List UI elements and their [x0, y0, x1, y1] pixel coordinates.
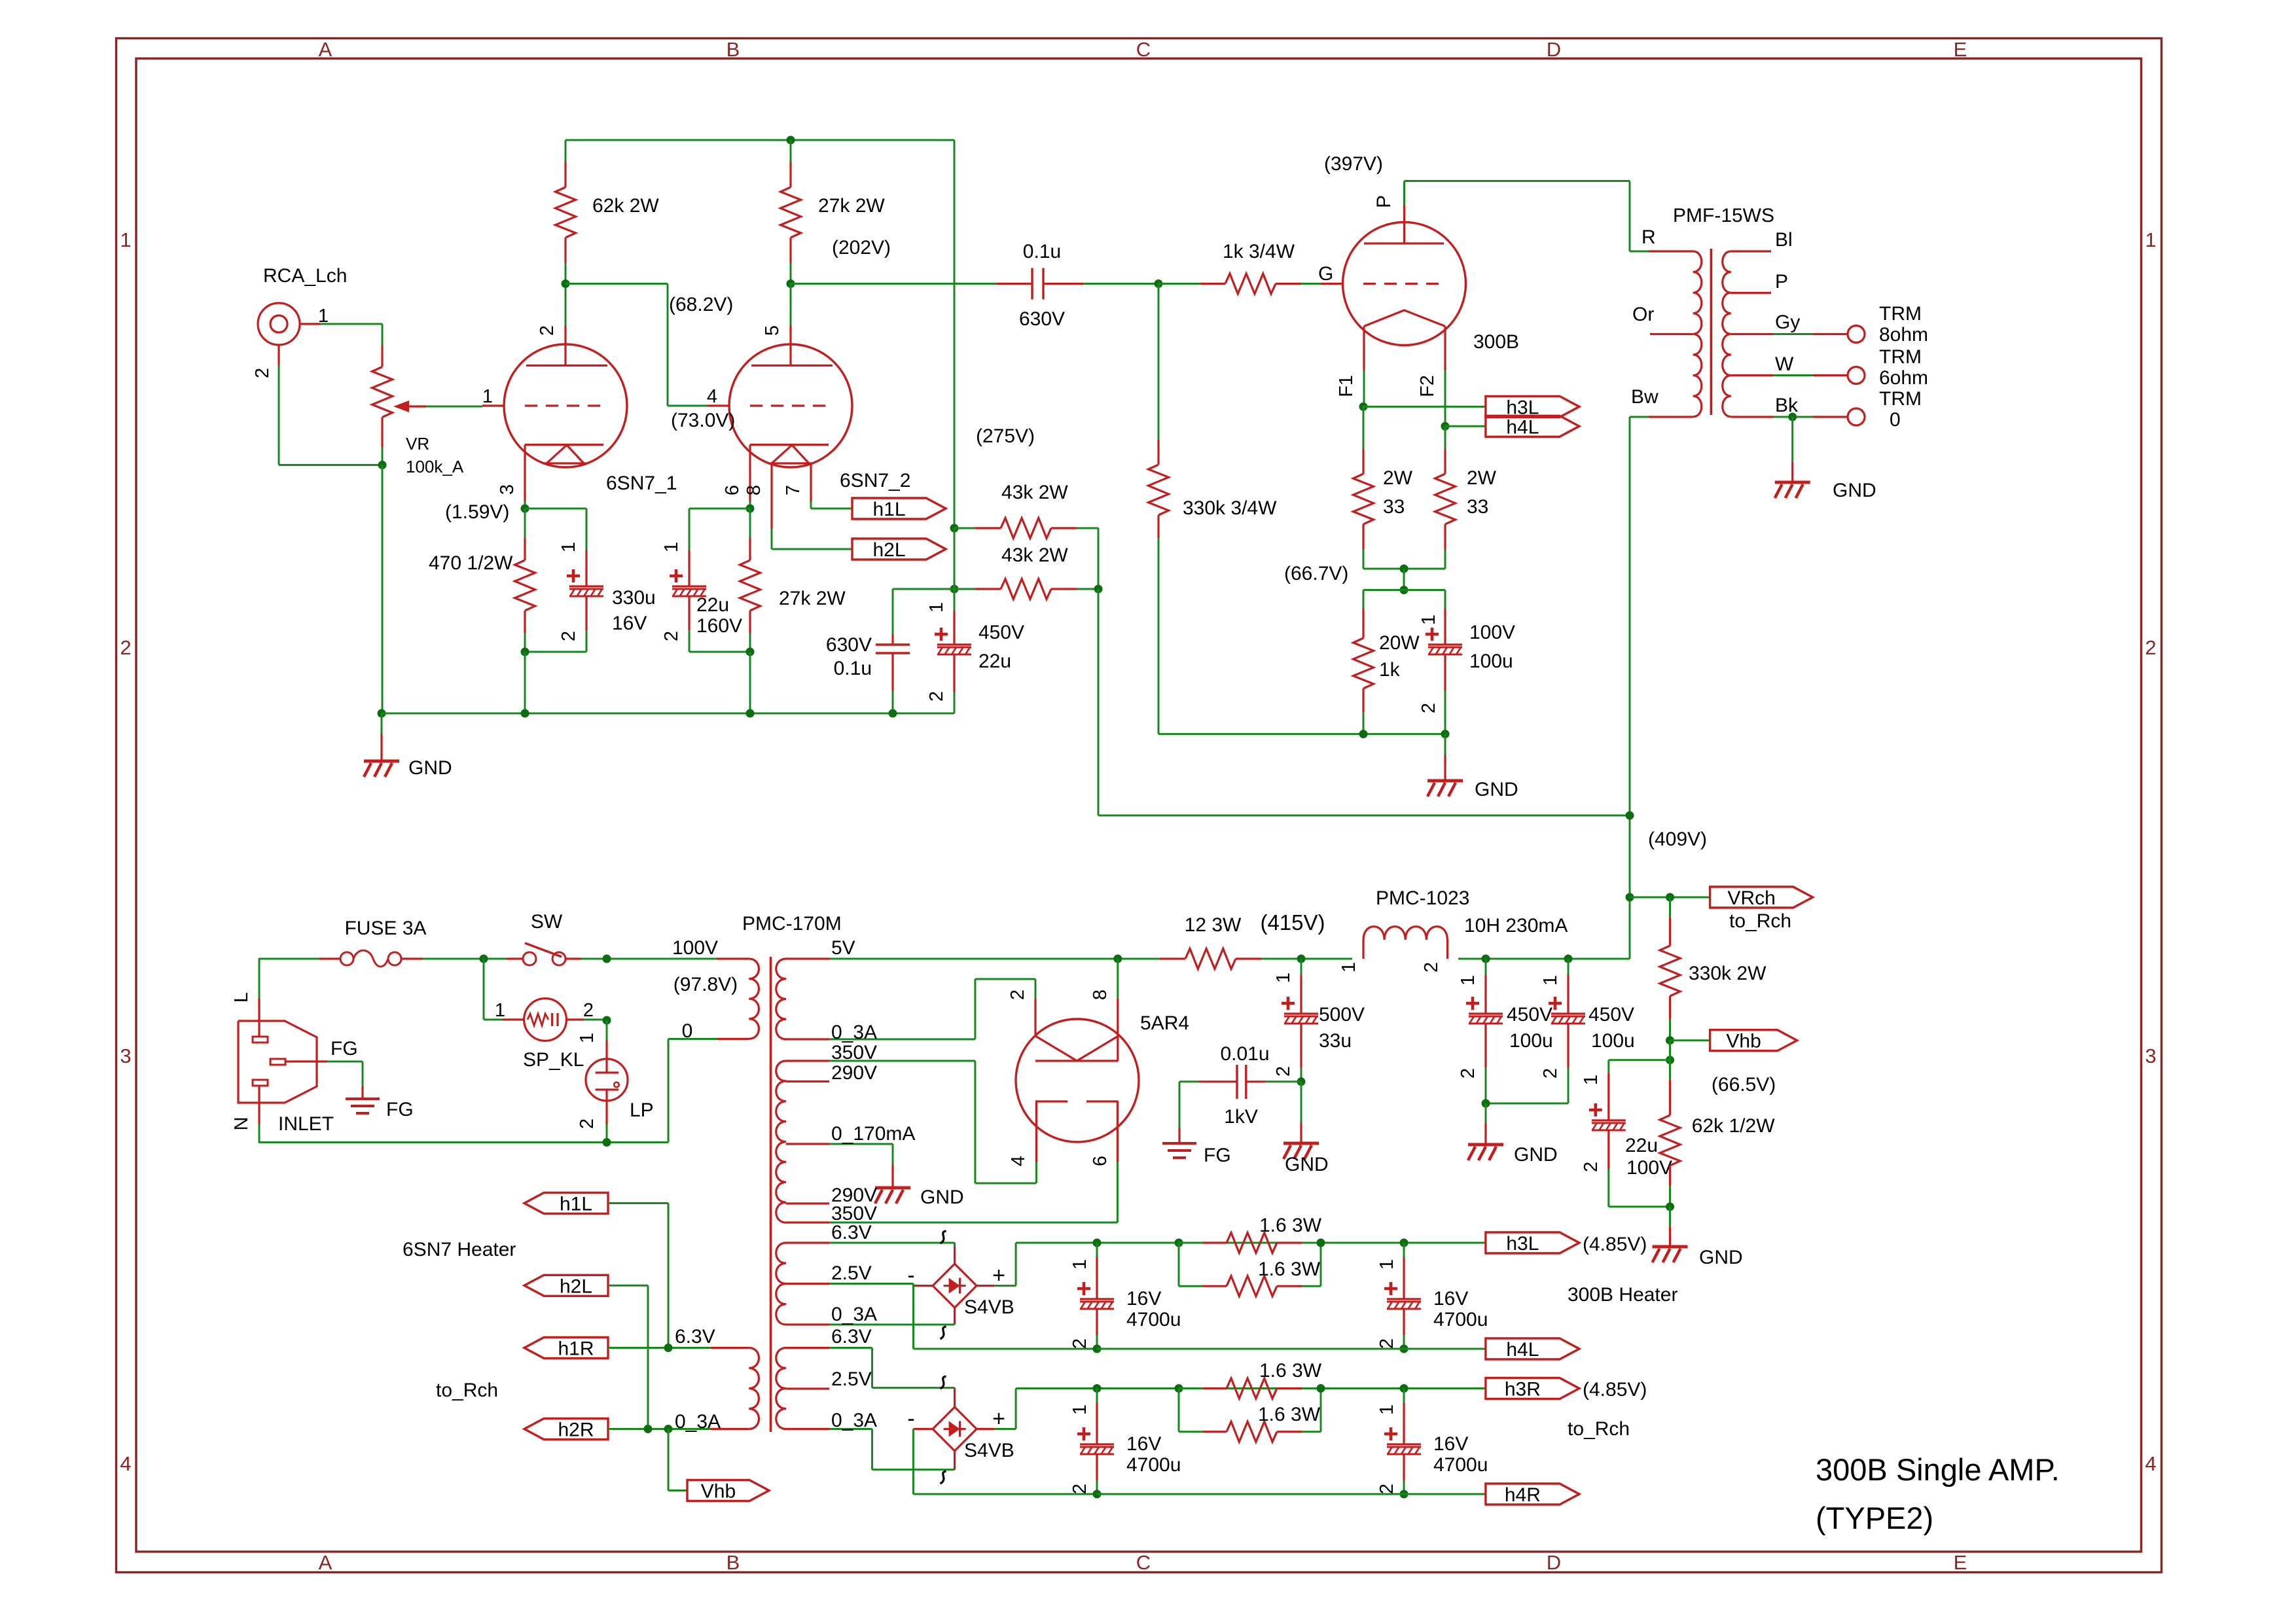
svg-text:4: 4 — [120, 1452, 131, 1475]
heater winding 6.3V 300B-R — [776, 1348, 786, 1429]
svg-text:2: 2 — [1418, 703, 1439, 713]
300B plate pin P wire to OPT — [1403, 181, 1405, 205]
svg-text:FG: FG — [386, 1099, 414, 1120]
svg-text:GND: GND — [1833, 480, 1876, 501]
wire choke out — [1458, 958, 1630, 960]
svg-text:4700u: 4700u — [1126, 1309, 1181, 1330]
resistor 62k 1/2W — [1669, 1060, 1671, 1080]
svg-text:6.3V: 6.3V — [831, 1222, 872, 1243]
svg-text:E: E — [1954, 38, 1967, 61]
svg-text:0_3A: 0_3A — [831, 1410, 877, 1431]
svg-text:A: A — [319, 1551, 332, 1574]
node cath1 bottom — [521, 648, 529, 656]
svg-text:330k 3/4W: 330k 3/4W — [1183, 497, 1277, 519]
wire VR wiper to 6SN7_1 grid — [426, 406, 482, 408]
node top bus junction — [787, 136, 795, 145]
svg-text:PMF-15WS: PMF-15WS — [1673, 205, 1774, 226]
wire cap330u bottom — [525, 651, 586, 653]
capacitor C 4700u 16V C — [1096, 1389, 1098, 1403]
resistor 43k 2W lower — [954, 588, 975, 590]
node 43k top left — [950, 524, 959, 533]
svg-text:4: 4 — [2145, 1452, 2156, 1475]
capacitor 0.01u 1kV — [1179, 1080, 1198, 1082]
node VR bottom junction — [378, 461, 387, 469]
svg-text:P: P — [1373, 195, 1395, 208]
svg-text:5AR4: 5AR4 — [1140, 1012, 1189, 1034]
svg-text:LP: LP — [630, 1099, 654, 1121]
5AR4 pin 4 — [1035, 1101, 1037, 1162]
svg-text:B: B — [726, 1551, 740, 1574]
svg-text:1: 1 — [1540, 975, 1561, 986]
node cap C pin2 — [1093, 1490, 1102, 1499]
svg-text:1: 1 — [1418, 615, 1439, 625]
svg-text:1k 3/4W: 1k 3/4W — [1223, 241, 1295, 262]
OPT primary tap Or — [1650, 333, 1693, 335]
secondary tap 290V lower — [786, 1202, 829, 1204]
PMC-170M secondary 5V winding — [776, 959, 786, 1039]
choke L1 PMC-1023 — [1362, 940, 1364, 959]
node 33u bottom — [1297, 1077, 1306, 1086]
svg-text:FG: FG — [331, 1038, 358, 1060]
svg-text:(TYPE2): (TYPE2) — [1816, 1501, 1933, 1535]
svg-text:2: 2 — [1581, 1162, 1602, 1172]
svg-text:Vhb: Vhb — [1726, 1031, 1761, 1052]
svg-text:450V: 450V — [978, 622, 1024, 643]
wire to h3L — [1363, 406, 1486, 408]
PMC-170M primary winding 100V — [749, 959, 759, 1039]
secondary tap 0_3A filament — [786, 1038, 829, 1040]
net label h3R out — [1486, 1378, 1579, 1399]
svg-text:Vhb: Vhb — [701, 1481, 736, 1503]
net label h1L — [852, 498, 946, 519]
svg-text:100k_A: 100k_A — [406, 457, 464, 476]
node F1 h3L — [1359, 402, 1368, 411]
svg-text:h2L: h2L — [560, 1275, 592, 1297]
node h1 junction — [664, 1344, 673, 1352]
node F2 h4L — [1441, 422, 1450, 431]
svg-text:3: 3 — [2145, 1044, 2156, 1067]
RCA jack RCA_Lch — [258, 303, 300, 345]
svg-text:INLET: INLET — [278, 1113, 334, 1135]
node filter cap ground — [1482, 1099, 1490, 1108]
triode U2 6SN7_2 — [729, 344, 852, 467]
svg-text:(275V): (275V) — [976, 425, 1035, 447]
svg-text:2.5V: 2.5V — [831, 1368, 872, 1390]
svg-text:43k 2W: 43k 2W — [1001, 482, 1068, 503]
svg-text:+: + — [992, 1263, 1005, 1288]
svg-text:FUSE 3A: FUSE 3A — [344, 918, 426, 939]
svg-text:6ohm: 6ohm — [1879, 367, 1928, 389]
6SN7_2 cathode pin 6 — [749, 445, 751, 502]
capacitor 0.1u 630V decouple — [893, 588, 954, 590]
svg-text:S4VB: S4VB — [964, 1440, 1014, 1461]
wire h1R — [608, 1347, 668, 1349]
PMC-170M core — [770, 957, 772, 1432]
node res pair 2 right — [1317, 1384, 1325, 1393]
bridge1 AC top lead — [954, 1243, 956, 1247]
svg-text:h1L: h1L — [560, 1194, 592, 1215]
svg-text:Gy: Gy — [1775, 312, 1800, 333]
node Bk ground — [1788, 413, 1797, 421]
inlet connector INLET — [238, 1021, 317, 1103]
wire to h4L — [1445, 425, 1486, 427]
6SN7_1 grid dashed — [525, 404, 603, 406]
node cap 4700u B pin1 — [1400, 1239, 1408, 1247]
lamp LP — [606, 1020, 608, 1040]
svg-text:5: 5 — [762, 325, 783, 336]
svg-text:TRM: TRM — [1879, 303, 1922, 325]
net label h1L in — [524, 1193, 608, 1214]
svg-text:2: 2 — [1069, 1338, 1090, 1349]
5AR4 plates — [1035, 1100, 1067, 1102]
svg-text:6: 6 — [1090, 1156, 1111, 1166]
primary tap 0 — [717, 1038, 749, 1040]
svg-text:4: 4 — [707, 386, 717, 407]
wire cath1 to ground bus — [524, 652, 526, 713]
svg-text:43k 2W: 43k 2W — [1001, 544, 1068, 566]
net label h3L out — [1486, 1232, 1579, 1253]
OPT secondary tap Bl — [1731, 250, 1771, 252]
wire 33ohm bottoms — [1363, 568, 1404, 570]
node cap D pin2 — [1400, 1490, 1408, 1499]
svg-text:GND: GND — [1475, 779, 1518, 800]
svg-text:2: 2 — [558, 631, 579, 641]
tap 0_3A R — [786, 1428, 829, 1430]
svg-text:27k 2W: 27k 2W — [818, 195, 885, 217]
node filter cap B — [1564, 955, 1573, 963]
svg-text:GND: GND — [408, 757, 452, 779]
svg-text:330u: 330u — [612, 587, 656, 609]
svg-text:0.01u: 0.01u — [1220, 1043, 1269, 1065]
node 43k right — [1094, 585, 1103, 594]
OPT primary tap Bw — [1649, 416, 1693, 418]
wire Vhb label — [1670, 1039, 1710, 1041]
node cap 4700u C pin1 — [1093, 1384, 1102, 1393]
svg-text:2.5V: 2.5V — [831, 1262, 872, 1284]
bridge2 plus lead — [977, 1428, 994, 1430]
bridge1 minus lead — [914, 1285, 933, 1287]
triode U1 6SN7_1 — [504, 344, 627, 467]
capacitor C 22u 160V — [689, 508, 691, 550]
node lamp tap — [603, 955, 611, 963]
svg-text:h4L: h4L — [1506, 1339, 1539, 1361]
OPT core — [1710, 249, 1713, 415]
svg-text:2: 2 — [1273, 1066, 1294, 1077]
resistor 33 2W F1 — [1363, 406, 1365, 449]
svg-text:2: 2 — [1007, 990, 1028, 1000]
wire cathode ground bus — [1158, 733, 1445, 735]
svg-text:D: D — [1547, 1551, 1561, 1574]
node first filter cap — [1297, 955, 1306, 963]
svg-text:62k 1/2W: 62k 1/2W — [1692, 1115, 1775, 1137]
svg-text:1: 1 — [1581, 1075, 1602, 1085]
svg-text:6SN7_1: 6SN7_1 — [606, 473, 677, 494]
bridge1 minus rail — [912, 1284, 914, 1349]
resistor 470 1/2W cathode — [524, 508, 526, 538]
svg-text:VRch: VRch — [1727, 887, 1775, 909]
svg-text:(409V): (409V) — [1648, 829, 1707, 850]
ground GND symbol 33u — [1300, 1082, 1302, 1123]
svg-text:Or: Or — [1632, 304, 1654, 325]
tap 6.3V R — [786, 1347, 829, 1349]
ground GND symbol speaker — [1791, 417, 1793, 462]
node cathode bus 2 — [1441, 730, 1450, 738]
svg-text:2: 2 — [252, 368, 273, 378]
bridge rectifier D2 S4VB — [933, 1407, 977, 1451]
capacitor C 100u 100V cathode — [1444, 590, 1446, 609]
rectifier U4 5AR4 — [1016, 1019, 1139, 1142]
bridge2 AC bottom lead — [954, 1451, 956, 1470]
ground GND symbol input stage — [381, 713, 383, 734]
wire to Vhb — [668, 1429, 670, 1491]
node SP_KL tap — [480, 955, 488, 963]
svg-text:22u: 22u — [978, 651, 1011, 672]
svg-text:8: 8 — [744, 485, 764, 495]
svg-text:1: 1 — [558, 542, 579, 552]
svg-text:2: 2 — [1458, 1068, 1479, 1079]
svg-text:2: 2 — [583, 1000, 594, 1021]
svg-text:450V: 450V — [1588, 1004, 1634, 1026]
svg-text:500V: 500V — [1319, 1004, 1365, 1026]
6SN7_1 cathode pin 3 — [524, 445, 526, 502]
svg-text:4: 4 — [1008, 1156, 1029, 1166]
bridge2 plus rail — [1015, 1389, 1017, 1429]
svg-text:N: N — [231, 1117, 252, 1131]
spark killer SP_KL — [483, 959, 485, 1020]
wire top bus down right — [954, 140, 956, 528]
wire minus rail to h4L — [1097, 1348, 1486, 1350]
wire pin3 to cap 330u — [525, 508, 586, 510]
6SN7_2 cathode — [750, 444, 829, 446]
bridge2 minus lead — [913, 1428, 933, 1430]
net label h4L out — [1486, 1338, 1579, 1359]
node h2 junction b — [664, 1425, 673, 1433]
wire RCA pin2 to VR bottom — [279, 464, 382, 466]
tap 2.5V R stub — [786, 1387, 829, 1389]
node cap A pin2 — [1093, 1345, 1102, 1353]
RCA pin 2 stub — [278, 345, 279, 365]
heater tap 6.3V left — [711, 1347, 749, 1349]
tap 0_3A L — [786, 1323, 829, 1325]
svg-text:450V: 450V — [1507, 1004, 1552, 1026]
6SN7_2 grid pin 4 stub — [708, 404, 729, 406]
net label h4L — [1486, 416, 1579, 437]
node res pair right — [1317, 1239, 1325, 1247]
svg-text:D: D — [1547, 38, 1561, 61]
svg-text:330k 2W: 330k 2W — [1689, 963, 1767, 984]
svg-text:1kV: 1kV — [1224, 1106, 1258, 1128]
svg-text:h1R: h1R — [558, 1338, 594, 1360]
svg-text:16V: 16V — [1126, 1433, 1161, 1455]
svg-text:2: 2 — [2145, 636, 2156, 659]
svg-text:6.3V: 6.3V — [831, 1326, 872, 1347]
wire AC live top — [259, 958, 319, 960]
300B filament pin F1 — [1363, 327, 1365, 371]
resistor 1.6 3W d — [1178, 1389, 1180, 1432]
svg-text:-: - — [907, 1406, 914, 1431]
node lamp top — [603, 1016, 611, 1025]
svg-text:2: 2 — [1376, 1338, 1397, 1349]
secondary tap 350V upper — [786, 1060, 829, 1061]
wire to 22u 100V cap — [1609, 1059, 1670, 1061]
svg-text:20W: 20W — [1379, 632, 1420, 654]
svg-text:16V: 16V — [1126, 1288, 1161, 1310]
OPT secondary tap Bk — [1731, 416, 1773, 418]
svg-text:33u: 33u — [1319, 1030, 1352, 1052]
svg-text:6: 6 — [722, 485, 743, 495]
svg-text:SW: SW — [531, 911, 563, 933]
svg-text:8ohm: 8ohm — [1879, 324, 1928, 346]
wire cap22u bottom — [689, 651, 750, 653]
wire SW to transformer — [581, 958, 717, 960]
svg-text:L: L — [231, 992, 252, 1003]
earth FG symbol inlet — [361, 1086, 363, 1099]
wire RCA pin2 down — [278, 365, 280, 465]
wire VR bottom to junction — [382, 447, 384, 465]
svg-text:350V: 350V — [831, 1042, 877, 1063]
svg-text:2: 2 — [1421, 962, 1442, 972]
bridge2 AC top lead — [954, 1388, 956, 1407]
6SN7_1 grid pin 1 stub — [482, 404, 504, 406]
resistor 1.6 3W b — [1178, 1243, 1180, 1286]
resistor 330k 3/4W grid leak — [1158, 284, 1160, 440]
net label h1R in — [524, 1338, 608, 1359]
svg-text:1.6 3W: 1.6 3W — [1258, 1258, 1321, 1280]
svg-text:16V: 16V — [612, 613, 647, 634]
5AR4 filament — [1035, 1036, 1077, 1061]
svg-text:2W: 2W — [1383, 467, 1413, 489]
svg-text:100V: 100V — [1469, 622, 1515, 643]
6SN7_2 grid dashed — [750, 404, 829, 406]
svg-text:GND: GND — [1285, 1154, 1329, 1175]
capacitor C 4700u 16V B — [1403, 1243, 1405, 1257]
node 300B grid resistor junction — [1155, 279, 1163, 288]
wire top bus — [565, 139, 954, 141]
svg-text:2: 2 — [1540, 1068, 1561, 1079]
svg-text:0.1u: 0.1u — [834, 658, 872, 679]
svg-text:2: 2 — [1376, 1484, 1397, 1494]
svg-text:0_170mA: 0_170mA — [831, 1123, 915, 1145]
heater winding 6.3V 300B-L — [776, 1243, 786, 1325]
capacitor C 22u 100V — [1607, 1060, 1609, 1073]
svg-text:h2L: h2L — [872, 539, 905, 561]
svg-text:1: 1 — [482, 386, 493, 407]
OPT secondary winding — [1723, 251, 1731, 417]
INLET pin N — [258, 1085, 260, 1124]
PMC-170M heater winding 6.3V left — [749, 1348, 759, 1429]
node ground bus left — [378, 709, 386, 718]
wire AC neutral bottom — [259, 1141, 668, 1143]
svg-text:22u: 22u — [696, 594, 729, 616]
resistor 1k 3/4W grid stopper — [1158, 283, 1200, 285]
svg-text:to_Rch: to_Rch — [1568, 1418, 1630, 1440]
svg-text:16V: 16V — [1433, 1433, 1468, 1455]
svg-text:VR: VR — [406, 434, 429, 454]
resistor 62k 2W plate load — [565, 140, 567, 162]
node h2 junction a — [644, 1425, 653, 1433]
node cap 4700u D pin1 — [1400, 1384, 1408, 1393]
6SN7_2 heater pin 8 to h2L — [770, 463, 772, 529]
resistor 1k 20W cathode — [1363, 590, 1365, 609]
svg-text:(66.5V): (66.5V) — [1712, 1074, 1776, 1096]
svg-text:TRM: TRM — [1879, 388, 1922, 410]
svg-text:1: 1 — [1458, 975, 1479, 986]
capacitor C 22u 450V decouple — [954, 589, 956, 611]
net label Vhb — [1710, 1030, 1797, 1051]
svg-text:to_Rch: to_Rch — [1729, 910, 1791, 932]
svg-text:0_3A: 0_3A — [831, 1022, 877, 1043]
6SN7_1 cathode — [525, 444, 603, 446]
svg-text:1.6 3W: 1.6 3W — [1259, 1360, 1322, 1382]
node 6SN7_1 plate — [562, 279, 570, 288]
OPT secondary tap P — [1731, 292, 1771, 294]
svg-text:100V: 100V — [1626, 1157, 1672, 1179]
svg-text:1: 1 — [495, 1000, 505, 1021]
svg-text:1: 1 — [661, 542, 682, 552]
secondary tap 0_170mA — [786, 1143, 829, 1145]
svg-text:33: 33 — [1383, 496, 1405, 518]
svg-text:(4.85V): (4.85V) — [1583, 1234, 1647, 1255]
svg-text:(1.59V): (1.59V) — [445, 501, 509, 523]
svg-text:6SN7 Heater: 6SN7 Heater — [403, 1239, 516, 1260]
node hum balance top — [1666, 1056, 1674, 1064]
wire RCA pin1 to VR top — [320, 323, 382, 325]
svg-text:h1L: h1L — [872, 499, 905, 520]
svg-text:630V: 630V — [826, 634, 872, 656]
wire 22u bottom — [1609, 1205, 1670, 1207]
300B filament — [1364, 310, 1445, 327]
300B filament pin F2 — [1444, 327, 1446, 371]
5AR4 pin 2 — [1035, 979, 1037, 998]
wire minus rail 2 to h4R — [1097, 1493, 1486, 1495]
wire plate1 to grid2 — [565, 283, 668, 285]
svg-text:h3L: h3L — [1506, 1233, 1539, 1255]
svg-text:W: W — [1775, 353, 1794, 375]
tap 6.3V L — [786, 1241, 829, 1243]
wire cath2 to ground bus — [749, 652, 751, 713]
bridge1 AC bottom lead — [954, 1308, 956, 1325]
svg-text:1k: 1k — [1379, 659, 1401, 681]
svg-text:F1: F1 — [1336, 375, 1357, 397]
node 0.1u ground — [889, 709, 897, 718]
capacitor C 100u 450V A — [1485, 959, 1487, 975]
INLET pin L — [258, 999, 260, 1037]
node lamp bottom — [603, 1138, 611, 1147]
svg-text:TRM: TRM — [1879, 346, 1922, 368]
svg-text:3: 3 — [497, 484, 518, 495]
svg-text:5V: 5V — [831, 937, 855, 959]
svg-text:2: 2 — [577, 1118, 598, 1129]
net label h4R out — [1486, 1484, 1579, 1505]
net label VRch — [1710, 887, 1813, 908]
bridge1 plus rail — [1015, 1243, 1017, 1286]
svg-text:0: 0 — [682, 1020, 693, 1042]
ground GND symbol 300B cathode — [1444, 734, 1446, 755]
primary tap 100V — [717, 957, 749, 959]
node cathode bus 1 — [1359, 730, 1368, 738]
ground GND symbol HV center tap — [891, 1165, 893, 1188]
svg-text:B: B — [726, 38, 740, 61]
svg-text:100u: 100u — [1591, 1030, 1635, 1052]
resistor 12 3W — [1160, 957, 1185, 959]
capacitor C 100u 450V B — [1568, 959, 1570, 975]
net label h2R in — [524, 1419, 608, 1440]
300B grid dashed — [1363, 283, 1442, 285]
svg-text:33: 33 — [1467, 496, 1488, 518]
node filament center — [1400, 565, 1408, 573]
6SN7_1 plate — [526, 365, 607, 366]
svg-text:(202V): (202V) — [832, 237, 891, 259]
